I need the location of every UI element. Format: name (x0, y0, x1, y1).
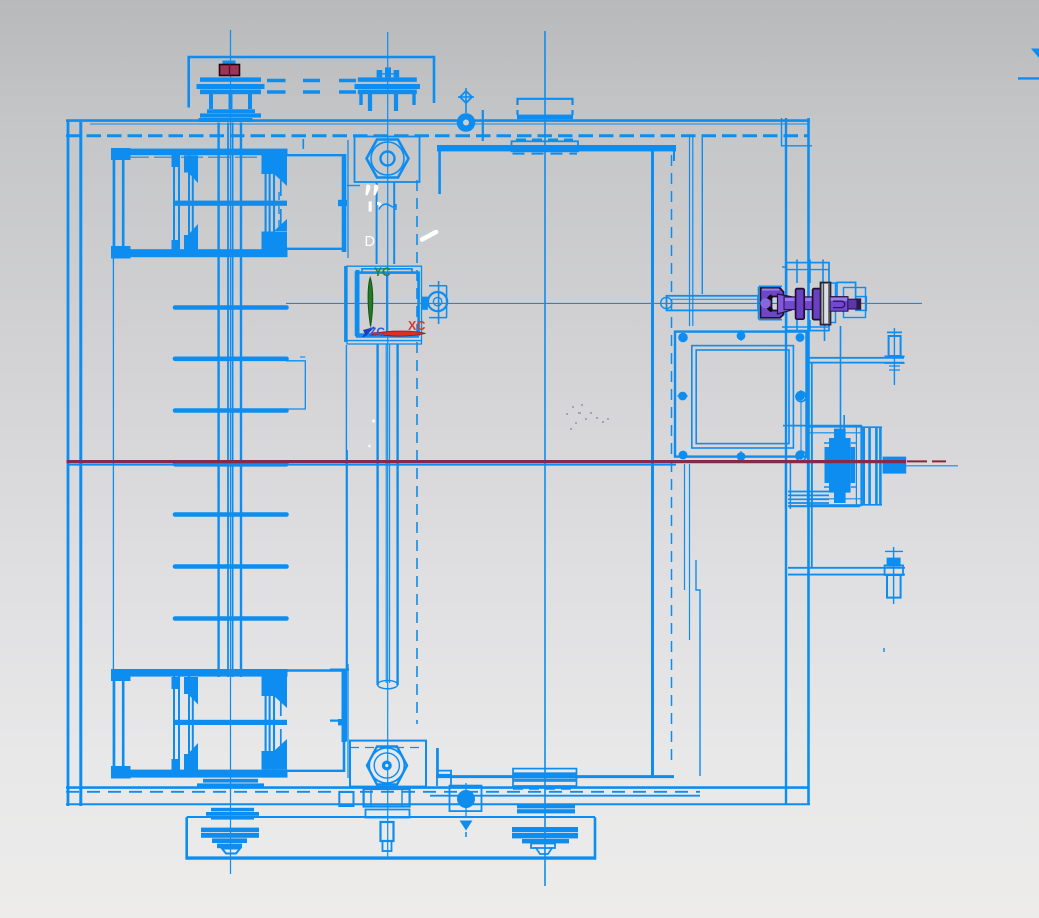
vertical drops below coupling (797, 320, 844, 438)
lower frame inner-left posts (174, 676, 193, 770)
svg-text:ZC: ZC (369, 325, 385, 339)
svg-text:YC: YC (374, 265, 391, 279)
bottom hex nut (367, 747, 407, 785)
tick x303 (302, 139, 304, 149)
left pulley base bars (207, 109, 255, 113)
upper frame right post (342, 154, 347, 252)
wall-mount beam y358 (807, 358, 904, 363)
tank right wall inner (785, 118, 787, 805)
beam left end tick (482, 110, 484, 141)
motor block (maroon) cap (223, 61, 236, 66)
inner vertical below x686 (684, 464, 686, 590)
tank top dashed line (66, 134, 808, 137)
lower frame inner-right posts (266, 676, 274, 770)
drive pipe (gearbox to bottom) (378, 344, 398, 685)
tank left wall outer (67, 120, 70, 806)
universal joint yoke (purple) (761, 288, 784, 318)
L bracket left of bolt (436, 748, 438, 776)
tank bottom lower line (66, 803, 810, 805)
thick mid beam y148 (437, 145, 676, 151)
lower frame top rail (112, 669, 288, 677)
right bottom pulley stack (517, 804, 575, 808)
dashed vertical x279 (inside upper frame) (278, 192, 280, 248)
square hatch inner (696, 350, 789, 444)
white slash mark (422, 232, 436, 240)
upper frame top rail (112, 149, 288, 156)
gearbox top notch (362, 269, 412, 273)
gearbox square (356, 273, 419, 335)
XC red arrow (371, 331, 426, 336)
base bottom thick (187, 856, 595, 859)
dashed vertical x417 (416, 180, 418, 724)
joint end cylinder (848, 299, 857, 309)
spider bolt top (465, 88, 467, 113)
tank right wall step line (781, 118, 783, 146)
joint shaft left (784, 297, 814, 310)
paddle P2 (175, 356, 287, 361)
box frame above coupling (787, 263, 830, 331)
thin line under upper rail (127, 156, 286, 158)
joint shaft right (830, 297, 848, 312)
gear cluster filled (829, 438, 851, 493)
left pulley legs (211, 94, 250, 109)
diamond pointer under bolt (460, 821, 473, 831)
top-right view triad fragment (1031, 49, 1039, 59)
stack under drive (788, 492, 829, 504)
lower wall beam y568 (788, 568, 905, 575)
dashed link rows between pulleys (267, 79, 356, 82)
bottom gearbox box (350, 741, 426, 787)
vertical x347.5 right of frames (346, 450, 348, 670)
paddle P7 (175, 616, 287, 621)
ZC blue arrow (363, 327, 374, 337)
faint speckles (566, 404, 609, 430)
svg-text:XC: XC (408, 319, 425, 333)
bolt box bottom left (450, 786, 482, 812)
lower-left bracket stubs (330, 670, 349, 721)
tank left wall inner (79, 122, 82, 806)
paddle P1 (175, 305, 287, 310)
right pulley legs (370, 94, 396, 111)
upper wall bolt x894 (893, 328, 895, 385)
vertical x346 between gearbox and lower frame (345, 345, 347, 741)
small white dots (372, 419, 375, 422)
top frame box (189, 57, 434, 108)
upper frame mid bar (173, 201, 287, 206)
bottom inner thick line (436, 775, 674, 778)
YC green arrow (368, 278, 373, 327)
upper frame left post (113, 149, 116, 257)
right pulley castle top (377, 70, 383, 77)
tank bottom dashed (66, 791, 700, 793)
lower frame mid bar (173, 720, 287, 725)
base plate (187, 817, 595, 858)
hex nut upper (367, 140, 409, 178)
right stub of horizontal centerline (886, 465, 958, 467)
lower frame left post (113, 669, 116, 778)
lower wall bolt x893 (893, 547, 895, 604)
tank right wall outer (807, 118, 810, 805)
inner right wall dashed (671, 155, 673, 766)
red centerline (67, 460, 907, 463)
joint ring 1 (796, 289, 805, 320)
paddle P4 (under red line) (175, 462, 287, 467)
pipe bottom cap ellipse (378, 680, 398, 688)
universal joint blue halo (759, 286, 783, 319)
beam left corner vertical (438, 145, 441, 194)
bar under bracket (517, 115, 573, 120)
tank bottom second line (430, 795, 700, 797)
gearbox square left thick edge (356, 270, 360, 337)
paddle P3 (175, 408, 287, 413)
paddle bracket rect right (286, 361, 305, 409)
lower frame right post (342, 669, 347, 742)
inner verticals x690 (689, 136, 691, 326)
upper frame corner pads (111, 148, 131, 160)
feed tube to joint (667, 296, 759, 311)
inner vertical x696 step (696, 560, 700, 776)
wall verticals between beams (808, 363, 811, 568)
vertical centerline right x545 (544, 31, 546, 886)
left bottom pulley stack (211, 808, 254, 812)
upper frame dashed vline (280, 180, 282, 230)
left inner post x113 between frames (112, 153, 114, 778)
bolt stem below (381, 822, 394, 841)
side flange circle right of gearbox (428, 292, 447, 311)
upper frame inner-right posts (266, 155, 274, 250)
hex-nut housing box (355, 137, 420, 183)
flange stack top (y139-156) (516, 139, 573, 141)
horizontal centerline y302 (286, 302, 922, 304)
tank top rim lower line (90, 123, 808, 125)
bottom gearbox right step (437, 748, 452, 786)
bracket box on x545 (518, 99, 573, 115)
joint ring 2 (813, 289, 822, 320)
flange stack under lower frame (203, 779, 258, 783)
lower frame corner pads (111, 669, 131, 681)
tank inner right wall (651, 147, 654, 777)
upper frame inner-right pads (262, 155, 288, 175)
pads under bottom gearbox (339, 792, 353, 806)
spider bolt circle (457, 113, 476, 132)
paddle P6 (175, 564, 287, 569)
base plate top edge (187, 816, 595, 818)
lower frame bottom rail (112, 770, 288, 778)
blue hook near pipe top (379, 204, 396, 210)
upper frame inner-left posts (174, 155, 193, 250)
tank top rim beam (66, 119, 810, 122)
disc pack vertical lines (864, 427, 881, 505)
tank right step hline (781, 145, 812, 147)
agitator shaft tube lines (219, 123, 241, 678)
upper frame bottom rail (112, 249, 288, 257)
hex box bottom stub (347, 185, 360, 187)
vertical centerline middle shaft (387, 32, 389, 857)
wall bolts circles (796, 392, 806, 402)
tank bottom rim (66, 786, 808, 789)
gearbox bottom lines (345, 340, 422, 342)
gearbox outer bracket (347, 266, 422, 345)
right bottom flange stack (x545) (513, 769, 577, 774)
drive frame box (808, 427, 862, 506)
square hatch mid (692, 346, 794, 448)
mount plate above (783, 425, 862, 427)
silver disc (821, 283, 831, 325)
gearbox inner vertical (386, 272, 388, 336)
square hatch outer (675, 332, 807, 457)
left pulley flange bars (200, 77, 261, 81)
solid output block (883, 457, 907, 474)
right pulley flange bars (358, 77, 417, 81)
upper frame inner-left pads (184, 156, 198, 173)
hatch bolts (678, 331, 805, 461)
motor block maroon body (220, 65, 240, 76)
lower frame dashed vline (280, 700, 282, 750)
inner vertical x702 (701, 137, 703, 294)
blue line under red centerline (67, 464, 676, 466)
main vertical centerline left shaft (230, 30, 232, 874)
pipe below hex (377, 182, 395, 264)
paddle P5 (175, 512, 287, 517)
coupling guard box blue (821, 283, 836, 323)
joint cone (778, 294, 792, 314)
svg-text:D: D (365, 234, 375, 250)
